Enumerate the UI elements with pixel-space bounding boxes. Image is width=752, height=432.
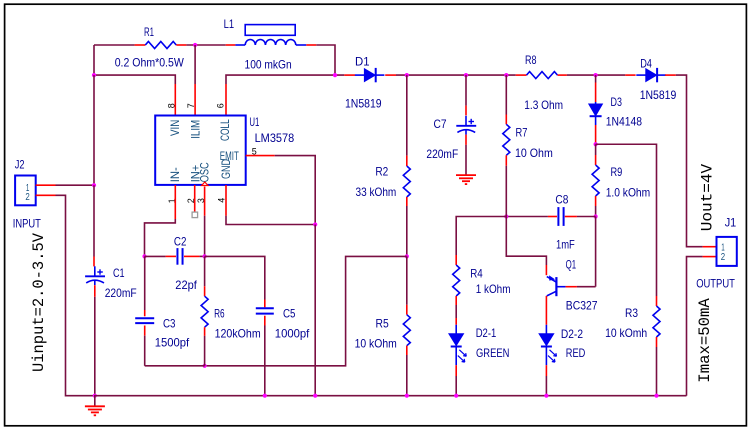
svg-text:R8: R8 xyxy=(525,53,537,67)
svg-text:D2-1: D2-1 xyxy=(476,326,497,340)
wire EMIT to emitter column xyxy=(275,156,316,225)
wire R4 to D2-1 xyxy=(455,305,457,318)
svg-text:COLL: COLL xyxy=(220,119,232,141)
svg-text:EMIT: EMIT xyxy=(220,151,239,163)
wire C8 right to node xyxy=(577,216,596,218)
svg-text:1N5819: 1N5819 xyxy=(345,96,382,110)
svg-text:1000pf: 1000pf xyxy=(275,327,310,341)
svg-text:8: 8 xyxy=(167,103,177,108)
resistor R7 column xyxy=(505,75,507,114)
junction rail/R7 xyxy=(504,73,508,77)
svg-text:R1: R1 xyxy=(144,25,154,39)
svg-text:C7: C7 xyxy=(434,117,447,131)
wire left riser top xyxy=(93,45,95,75)
transistor Q1 xyxy=(555,277,557,296)
svg-text:R2: R2 xyxy=(375,165,388,179)
resistor R5 xyxy=(403,315,410,346)
resistor R4 xyxy=(455,255,457,265)
svg-text:120kOhm: 120kOhm xyxy=(215,327,261,341)
wire C8 to R7 node xyxy=(506,216,548,218)
svg-text:100 mkGn: 100 mkGn xyxy=(245,57,292,71)
wire rail R8 to D4 xyxy=(567,74,625,76)
svg-text:R9: R9 xyxy=(611,165,623,179)
pin J1-2 lead xyxy=(703,256,717,258)
capacitor C7 branch xyxy=(465,75,467,106)
svg-text:Uout=4V: Uout=4V xyxy=(699,163,717,231)
wire node to R4 xyxy=(456,217,506,256)
svg-text:D2-2: D2-2 xyxy=(561,327,583,341)
svg-text:10 kOhm: 10 kOhm xyxy=(355,336,397,350)
resistor R1 xyxy=(135,44,146,46)
wire R2 to feedback node xyxy=(406,206,408,256)
pin 7 lead xyxy=(194,84,196,116)
resistor R2 column xyxy=(406,75,408,156)
svg-text:1mF: 1mF xyxy=(556,237,575,251)
svg-text:6: 6 xyxy=(216,103,226,108)
junction R6 bottom xyxy=(203,364,207,368)
junction node at R1/pin7 xyxy=(193,43,197,47)
wire R3 to ground rail xyxy=(656,347,658,396)
wire pin8 branch xyxy=(94,75,175,84)
junction EMIT/pin4 xyxy=(313,222,317,226)
wire R6 to bottom row xyxy=(204,336,206,366)
svg-text:2: 2 xyxy=(721,252,726,263)
diode D3 xyxy=(595,102,597,104)
ground GND1 main xyxy=(94,396,96,407)
wire left riser to J2 junction xyxy=(93,75,95,185)
wire R9 to C8 node xyxy=(595,206,597,217)
wire ground rail xyxy=(94,395,687,397)
wire L1 to main rail corner xyxy=(316,45,335,75)
junction R7/C8/R4 node xyxy=(504,214,508,218)
wire Q1 collector to D2-2 xyxy=(545,296,547,325)
svg-text:INPUT: INPUT xyxy=(13,216,42,230)
junction D3/R9 node xyxy=(594,142,598,146)
svg-text:1500pf: 1500pf xyxy=(155,335,190,349)
svg-text:R4: R4 xyxy=(470,266,483,280)
wire main rail D1 to R8 xyxy=(396,74,516,76)
svg-text:IN-: IN- xyxy=(170,167,182,182)
svg-text:R7: R7 xyxy=(516,126,528,140)
pin 5 EMIT lead xyxy=(246,155,275,157)
svg-text:J2: J2 xyxy=(15,158,25,172)
resistor R9 xyxy=(592,165,599,196)
junction C2 left node xyxy=(142,254,146,258)
svg-text:GREEN: GREEN xyxy=(476,346,509,360)
svg-text:1 kOhm: 1 kOhm xyxy=(476,282,511,296)
ground GND2 at C7 xyxy=(456,174,476,176)
junction rail/R5 xyxy=(405,394,409,398)
svg-text:C1: C1 xyxy=(113,266,125,280)
svg-text:BC327: BC327 xyxy=(566,298,598,312)
svg-text:L1: L1 xyxy=(224,17,235,31)
svg-text:220mF: 220mF xyxy=(105,286,137,300)
svg-text:LM3578: LM3578 xyxy=(255,131,295,145)
capacitor C7 xyxy=(465,116,467,126)
junction rail/C5 xyxy=(263,394,267,398)
wire pin3 to C2 right node xyxy=(204,216,206,257)
wire pin6 corner to rail xyxy=(226,75,344,84)
svg-text:Imax=50mA: Imax=50mA xyxy=(696,298,714,383)
svg-text:D3: D3 xyxy=(611,95,623,109)
svg-text:10 kOmh: 10 kOmh xyxy=(605,326,647,340)
no-connect marker pin 2 xyxy=(192,212,198,218)
junction C2 right / OSC / R6 xyxy=(203,254,207,258)
wire D3 to junction xyxy=(595,125,597,143)
wire left riser to C1 xyxy=(93,185,95,256)
junction rail/D2-2 xyxy=(544,394,548,398)
svg-text:C8: C8 xyxy=(555,193,568,207)
resistor R3 xyxy=(656,296,658,306)
wire D2-1 to ground rail xyxy=(455,365,457,376)
wire node to Q1 emitter xyxy=(506,217,546,266)
pin 6 lead xyxy=(225,84,227,116)
svg-text:D1: D1 xyxy=(355,54,370,68)
capacitor C1 xyxy=(94,266,96,276)
junction rail/C7 xyxy=(464,73,468,77)
pin 1 lead xyxy=(174,185,176,219)
svg-text:OUTPUT: OUTPUT xyxy=(696,276,735,290)
svg-text:R3: R3 xyxy=(625,306,638,320)
svg-text:Uinput=2.0-3.5V: Uinput=2.0-3.5V xyxy=(30,232,48,372)
svg-text:7: 7 xyxy=(186,103,196,108)
junction rail/emitter column xyxy=(313,394,317,398)
wire ground rail to J1 pin2 xyxy=(687,257,703,396)
resistor R6 top lead xyxy=(204,256,206,286)
wire top rail from left riser to R1 xyxy=(94,44,135,46)
wire R5 to ground rail xyxy=(406,355,408,396)
svg-text:2: 2 xyxy=(25,192,30,203)
connector J2 body xyxy=(15,176,36,206)
svg-text:220mF: 220mF xyxy=(426,147,458,161)
svg-text:0.2 Ohm*0.5W: 0.2 Ohm*0.5W xyxy=(115,56,185,70)
capacitor C8 xyxy=(548,216,557,218)
junction left riser / pin8 branch xyxy=(92,73,96,77)
wire Q1 base lead xyxy=(566,286,577,288)
pin 8 lead xyxy=(174,84,176,116)
svg-text:D4: D4 xyxy=(640,56,652,70)
wire J2-1 to left riser xyxy=(56,184,95,186)
wire C7 to ground xyxy=(465,135,467,145)
pin J2-2 lead xyxy=(36,194,56,196)
inductor L1 xyxy=(226,44,236,46)
svg-text:Q1: Q1 xyxy=(566,258,577,272)
resistor R2 xyxy=(403,166,410,197)
svg-text:1.3 Ohm: 1.3 Ohm xyxy=(524,98,563,112)
junction L1/D1 node xyxy=(333,73,337,77)
resistor R9 top lead xyxy=(595,144,597,155)
capacitor C2 xyxy=(145,255,166,257)
pin 2 lead xyxy=(194,185,196,212)
junction rail/R2 xyxy=(405,73,409,77)
resistor R8 xyxy=(516,74,527,76)
svg-text:OSC: OSC xyxy=(200,162,212,182)
wire emitter column to ground rail xyxy=(314,225,316,396)
svg-text:R6: R6 xyxy=(214,307,225,321)
diode D4 xyxy=(625,74,635,76)
connector J1 body xyxy=(717,237,737,266)
junction C1/ground rail xyxy=(93,394,97,398)
svg-text:U1: U1 xyxy=(249,115,259,129)
svg-text:1N5819: 1N5819 xyxy=(640,88,677,102)
pin 4 lead xyxy=(225,185,227,216)
svg-text:C5: C5 xyxy=(283,307,296,321)
capacitor C5 xyxy=(264,300,266,308)
diode D1 xyxy=(344,74,355,76)
pin 3 lead xyxy=(204,187,206,216)
wire C5 to ground rail xyxy=(264,326,266,396)
junction rail/D2-1 xyxy=(454,394,458,398)
wire R6 bottom row to C3 xyxy=(145,365,205,367)
pin J1-1 lead xyxy=(703,246,717,248)
svg-text:R5: R5 xyxy=(376,317,389,331)
transistor Q1 emitter lead xyxy=(545,265,547,275)
wire base node riser xyxy=(595,217,597,287)
wire D3 node to R3 column xyxy=(596,144,657,296)
svg-text:C3: C3 xyxy=(163,317,176,331)
wire C3 bottom to row xyxy=(144,336,146,366)
svg-text:1.0 kOhm: 1.0 kOhm xyxy=(606,185,651,199)
pin J2-1 lead xyxy=(36,184,56,186)
wire feedback link xyxy=(205,256,407,365)
junction rail/R3 xyxy=(654,394,658,398)
wire C1 to ground rail xyxy=(94,285,96,297)
svg-text:ILIM: ILIM xyxy=(191,120,203,139)
svg-text:1N4148: 1N4148 xyxy=(606,115,643,129)
svg-text:33 kOhm: 33 kOhm xyxy=(356,185,397,199)
resistor R6 xyxy=(201,296,208,327)
wire pin4 to emitter column xyxy=(226,216,315,225)
svg-text:VIN: VIN xyxy=(170,120,182,136)
wire node to C5 xyxy=(205,256,265,299)
resistor R5 top xyxy=(406,256,408,304)
svg-text:10 Ohm: 10 Ohm xyxy=(515,146,553,160)
op-amp U1 body xyxy=(155,116,246,185)
wire C3 column from C2 node xyxy=(144,256,146,310)
LED D2-1 xyxy=(455,325,457,334)
svg-text:J1: J1 xyxy=(725,215,737,229)
svg-text:C2: C2 xyxy=(174,234,187,248)
junction C8/R9/base node xyxy=(594,214,598,218)
junction R2/R5/feedback xyxy=(405,254,409,258)
wire pin1 to C2 xyxy=(145,219,176,256)
wire D2-2 to ground rail xyxy=(545,365,547,376)
OSC sync marker xyxy=(202,182,208,186)
junction J2-1/left riser xyxy=(92,183,96,187)
wire J2-2 down to ground rail xyxy=(56,195,95,395)
wire D4 to J1 pin1 (output rail) xyxy=(676,75,703,247)
svg-text:22pf: 22pf xyxy=(175,278,197,292)
diode D3 branch xyxy=(595,75,597,82)
wire pin7 drop from junction xyxy=(194,45,196,84)
LED D2-2 xyxy=(545,325,547,334)
wire R1 to L1 xyxy=(186,44,225,46)
junction rail/D3 xyxy=(594,73,598,77)
capacitor C3 xyxy=(144,310,146,316)
svg-text:RED: RED xyxy=(566,346,586,360)
resistor R7 xyxy=(503,124,510,155)
wire R7 to C8 node xyxy=(505,166,507,217)
